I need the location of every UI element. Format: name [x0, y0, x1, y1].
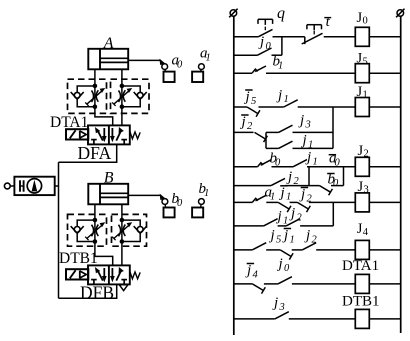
rung1 wire to junction [273, 36, 305, 38]
relay coil J4 [355, 240, 369, 259]
coil DTA1 [355, 274, 369, 293]
svg-text:3: 3 [305, 119, 311, 130]
wire - rod B to b0 switch [128, 194, 161, 196]
wire - cylinder B right port [121, 204, 123, 265]
wire - A-right bypass loop [122, 86, 140, 107]
node - A-right bottom [120, 104, 125, 109]
wire - air supply to vertical line [55, 185, 59, 187]
relay coil J3 [355, 193, 369, 212]
wire - valve DFB supply port to air line [59, 284, 117, 298]
valve DFA left-box blocked port [91, 139, 97, 141]
svg-text:2: 2 [364, 149, 369, 160]
contact j2bar NC [255, 132, 266, 139]
svg-text:0: 0 [284, 263, 290, 274]
svg-text:4: 4 [253, 269, 259, 280]
svg-text:2: 2 [312, 234, 318, 245]
junction rung3 to parallel block [332, 107, 334, 148]
check valve A-left [74, 92, 80, 98]
svg-text:DTB1: DTB1 [342, 294, 380, 310]
svg-text:DTB1: DTB1 [59, 250, 98, 267]
relay coil J1 [355, 98, 369, 117]
svg-text:A: A [103, 35, 114, 52]
rung7 wire [234, 249, 252, 251]
valve DFA right-box blocked port [121, 139, 127, 141]
junction rung4 to lower branch [265, 132, 267, 148]
limit switch b0 roller [162, 199, 168, 205]
label j1bar rung7 [284, 228, 291, 230]
contact b1 [252, 69, 258, 73]
relay coil J0 [355, 27, 369, 46]
solenoid DTB1 [66, 269, 88, 279]
rung6 wire [234, 201, 253, 203]
node - A-right top [120, 84, 125, 89]
svg-text:5: 5 [276, 234, 281, 245]
cylinder A piston [99, 49, 101, 70]
contact j1 rung6 branch [264, 219, 278, 226]
rung6 parallel branch wire [234, 225, 264, 227]
contact b0bar NC [320, 186, 331, 193]
contact j5 rung7 [252, 243, 266, 250]
contact j1 rung3 [284, 100, 298, 107]
contact j2 rung6 branch [286, 219, 300, 226]
air supply unit [4, 183, 10, 189]
power terminal left [230, 10, 237, 17]
contact j2 rung7 [302, 243, 316, 250]
junction rung1/j0 branch [281, 37, 283, 55]
rung2 wire [234, 72, 252, 74]
valve DFB left-box blocked port [91, 279, 97, 281]
rung4 wire [234, 131, 254, 133]
wire - B-left bypass loop [77, 220, 95, 241]
cylinder B piston [99, 184, 101, 205]
contact j2 branch [271, 178, 285, 185]
node - B-right top [120, 218, 125, 223]
svg-text:0: 0 [177, 198, 183, 209]
relay coil J2 [355, 157, 369, 176]
svg-text:0: 0 [333, 178, 339, 189]
j0 self-hold branch wire [234, 54, 258, 56]
rung1 wire to coil [324, 36, 356, 38]
cylinder B body [88, 184, 128, 205]
throttle valve A-left [94, 86, 96, 107]
limit switch a0 box [164, 70, 167, 72]
contact j1 lower branch [279, 141, 293, 148]
svg-text:1: 1 [206, 52, 211, 63]
svg-text:1: 1 [204, 188, 209, 199]
limit switch a0 roller [162, 64, 168, 70]
junction rung6 to lower branch [332, 202, 334, 226]
rung1 wire from left rail [234, 36, 258, 38]
svg-text:DTA1: DTA1 [50, 114, 88, 131]
svg-text:1: 1 [313, 156, 318, 167]
rung3 wire [234, 106, 247, 108]
svg-text:1: 1 [290, 234, 295, 245]
node - A-left bottom [93, 104, 98, 109]
contact j3 rung4 [279, 125, 293, 132]
valve DFB right-box arrows [111, 268, 113, 277]
contact j1bar NC [278, 202, 289, 209]
valve DFB return spring [130, 271, 140, 278]
rung5 parallel branch wire [234, 185, 271, 187]
contact a1 [252, 198, 258, 202]
label j2bar rung6 [301, 187, 308, 189]
wire - cylinder B left port [94, 204, 96, 220]
limit switch b1 box [200, 204, 203, 207]
label j1bar [280, 185, 287, 187]
throttle valve B-left [94, 220, 96, 242]
wire - A-left unit to valve DFA [95, 107, 113, 126]
wire - supply vertical line [58, 162, 60, 298]
check valve B-left [74, 227, 80, 233]
node - A-left top [93, 84, 98, 89]
svg-text:5: 5 [251, 96, 256, 107]
check valve A-right [137, 92, 143, 98]
wire - B-left unit to valve DFB [95, 242, 113, 266]
svg-text:q: q [277, 5, 285, 22]
svg-text:1: 1 [284, 94, 289, 105]
label j2bar [241, 114, 248, 116]
contact j2bar NC rung6 [297, 202, 308, 209]
svg-text:1: 1 [363, 90, 368, 101]
junction rung5 right [343, 167, 345, 186]
wire - cylinder A right port [121, 69, 123, 125]
svg-text:2: 2 [297, 212, 303, 223]
node - B-right bottom [120, 239, 125, 244]
valve DFA body [88, 125, 130, 144]
wire - A-left bypass loop [77, 86, 95, 107]
right bus rail [400, 16, 402, 333]
svg-text:0: 0 [266, 41, 272, 52]
contact j1 rung5 [293, 160, 307, 167]
pushbutton q contact [258, 29, 272, 36]
svg-text:2: 2 [247, 121, 253, 132]
label j4bar [247, 263, 254, 265]
pushbutton tbar NC contact [304, 37, 306, 44]
label tbar [324, 17, 331, 19]
cylinder A body [88, 49, 128, 70]
rung8 wire [234, 283, 253, 285]
exhaust silencer under DFB [119, 285, 128, 291]
contact j1bar rung7 [280, 250, 291, 257]
lower j1 branch wire [266, 147, 279, 149]
rung5 wire [234, 166, 258, 168]
rung9 wire [234, 318, 275, 320]
svg-text:2: 2 [294, 176, 300, 187]
wire - B-right bypass loop [122, 220, 140, 241]
node - B-left bottom [93, 239, 98, 244]
svg-text:5: 5 [363, 56, 368, 67]
svg-text:DFA: DFA [78, 143, 112, 163]
relay coil J5 [355, 64, 369, 83]
wire - rod A to a0 switch [128, 59, 160, 61]
wire - cylinder A left port [94, 69, 96, 86]
svg-text:B: B [104, 170, 114, 187]
contact j3 rung9 [275, 312, 289, 319]
limit switch a1 roller [199, 64, 205, 70]
contact b0 [258, 163, 264, 167]
node - B-left top [93, 218, 98, 223]
wire - valve DFA supply port to air line [59, 144, 117, 162]
svg-text:DTA1: DTA1 [342, 258, 379, 274]
svg-text:3: 3 [364, 185, 369, 196]
solenoid DTA1 [66, 129, 88, 139]
limit switch b0 box [164, 204, 167, 207]
contact j5bar NC [247, 107, 258, 114]
flow control unit A-right dashed box [111, 79, 150, 113]
label a0bar [329, 154, 336, 156]
svg-text:3: 3 [279, 302, 285, 313]
flow control unit B-right dashed box [112, 214, 147, 246]
svg-text:1: 1 [286, 192, 291, 203]
valve DFB body [88, 265, 130, 284]
valve DFB left-box arrows [98, 271, 103, 281]
label j5bar [245, 89, 252, 91]
valve DFA return spring [130, 131, 140, 138]
contact j0 branch [258, 48, 272, 55]
coil DTB1 [355, 309, 369, 328]
junction rung5 left [308, 167, 310, 186]
left bus rail [233, 16, 235, 335]
flow control unit B-left dashed box [68, 214, 107, 246]
valve DFA left-box arrows [98, 131, 103, 141]
throttle valve A-right [119, 90, 121, 102]
valve DFB right-box blocked port [121, 279, 127, 281]
svg-text:0: 0 [363, 16, 368, 27]
label b0bar [327, 173, 334, 175]
limit switch a1 box [200, 70, 203, 72]
svg-text:0: 0 [275, 157, 281, 168]
check valve B-right [137, 227, 143, 233]
limit switch b1 roller [199, 199, 205, 205]
flow control unit A-left dashed box [68, 79, 107, 113]
svg-text:1: 1 [270, 191, 275, 202]
svg-text:DFB: DFB [80, 283, 114, 303]
cylinder A rod [100, 57, 128, 59]
contact j4bar NC [252, 284, 263, 291]
svg-text:4: 4 [363, 227, 369, 238]
valve DFA right-box arrows [111, 128, 113, 137]
cylinder B rod [100, 192, 128, 194]
svg-text:0: 0 [335, 157, 341, 168]
power terminal right [397, 10, 404, 17]
contact j0 rung8 [278, 277, 292, 284]
svg-text:1: 1 [278, 60, 283, 71]
svg-text:0: 0 [177, 59, 183, 70]
throttle valve B-right [119, 225, 121, 237]
svg-text:2: 2 [307, 193, 313, 204]
